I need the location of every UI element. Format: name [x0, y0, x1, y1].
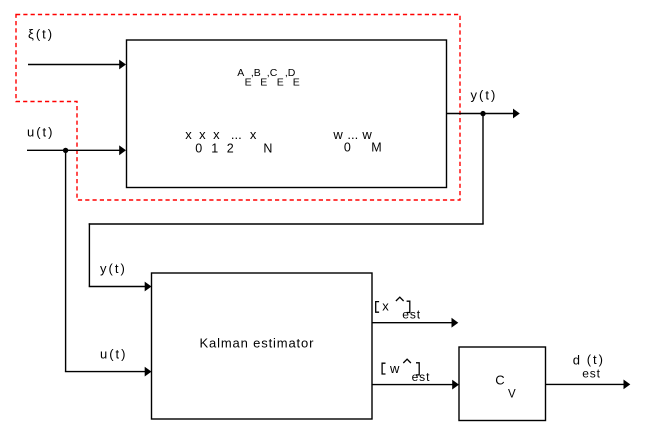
svg-text:u(t): u(t)	[27, 125, 55, 140]
svg-text:u(t): u(t)	[100, 346, 128, 361]
system boundary (red dashed)	[16, 15, 460, 201]
svg-text:M: M	[371, 141, 381, 155]
label A_E,B_E,C_E,D_E	[237, 67, 300, 89]
label d_est(t)	[573, 352, 605, 380]
svg-text:(t): (t)	[587, 352, 605, 367]
label [w hat]est	[382, 359, 430, 384]
svg-text:C: C	[495, 373, 504, 388]
svg-text:A: A	[237, 67, 244, 79]
wire y(t) feedback down to Kalman level	[88, 223, 90, 286]
label w_0 ... w_M	[332, 127, 381, 155]
svg-text:ξ(t): ξ(t)	[28, 26, 54, 41]
wire u(t) into Kalman estimator	[65, 371, 146, 373]
svg-text:x: x	[199, 127, 206, 142]
svg-text:1: 1	[211, 141, 218, 155]
plant block (state-space model)	[127, 40, 447, 188]
svg-text:d: d	[573, 352, 580, 367]
label Cv	[495, 373, 516, 401]
svg-text:est: est	[582, 366, 601, 380]
svg-text:x: x	[382, 299, 389, 314]
arrowhead [w hat]est into Cv	[452, 380, 459, 390]
svg-text:x: x	[250, 127, 257, 142]
arrowhead y(t) output	[513, 109, 520, 119]
svg-text:est: est	[412, 370, 431, 384]
arrowhead [x hat]est output	[452, 318, 459, 328]
arrowhead u(t) into Kalman estimator	[145, 367, 152, 377]
arrowhead y(t) into Kalman estimator	[145, 282, 152, 292]
wire y(t) feedback vertical from node	[482, 114, 484, 225]
wire y(t) feedback horizontal	[89, 223, 484, 225]
svg-text:0: 0	[195, 141, 202, 155]
svg-text:E: E	[293, 77, 300, 89]
Kalman estimator block	[152, 273, 373, 419]
svg-text:y(t): y(t)	[471, 88, 498, 103]
svg-text:0: 0	[344, 141, 351, 155]
arrowhead u(t) into plant	[119, 145, 126, 155]
label x_0 x_1 x_2 ... x_N	[185, 127, 272, 155]
wire u(t) vertical branch	[65, 150, 67, 371]
svg-text:...: ...	[347, 127, 358, 142]
wire d_est(t) output	[546, 383, 625, 385]
wire y(t) into Kalman estimator	[89, 286, 146, 288]
label [x hat]est	[376, 297, 421, 321]
svg-text:2: 2	[227, 141, 234, 155]
svg-text:...: ...	[231, 127, 242, 142]
Cv block	[459, 347, 546, 421]
junction node y(t)	[480, 111, 485, 116]
wire u(t) into plant	[27, 149, 120, 151]
wire y(t) output	[447, 113, 514, 115]
svg-text:V: V	[508, 388, 516, 400]
arrowhead d_est(t) output	[624, 380, 631, 390]
svg-text:x: x	[185, 127, 192, 142]
svg-text:x: x	[213, 127, 220, 142]
svg-text:w: w	[389, 361, 400, 376]
svg-text:est: est	[402, 307, 421, 321]
arrowhead xi(t)	[119, 60, 126, 70]
svg-text:N: N	[263, 141, 272, 155]
wire [x hat]est output	[372, 322, 452, 324]
svg-text:y(t): y(t)	[100, 261, 127, 276]
wire [w hat]est output	[372, 384, 453, 386]
junction node u(t)	[63, 148, 68, 153]
svg-text:Kalman estimator: Kalman estimator	[200, 335, 315, 350]
svg-text:E: E	[277, 77, 284, 89]
svg-text:w: w	[332, 127, 343, 142]
wire xi(t) into plant	[28, 64, 120, 66]
